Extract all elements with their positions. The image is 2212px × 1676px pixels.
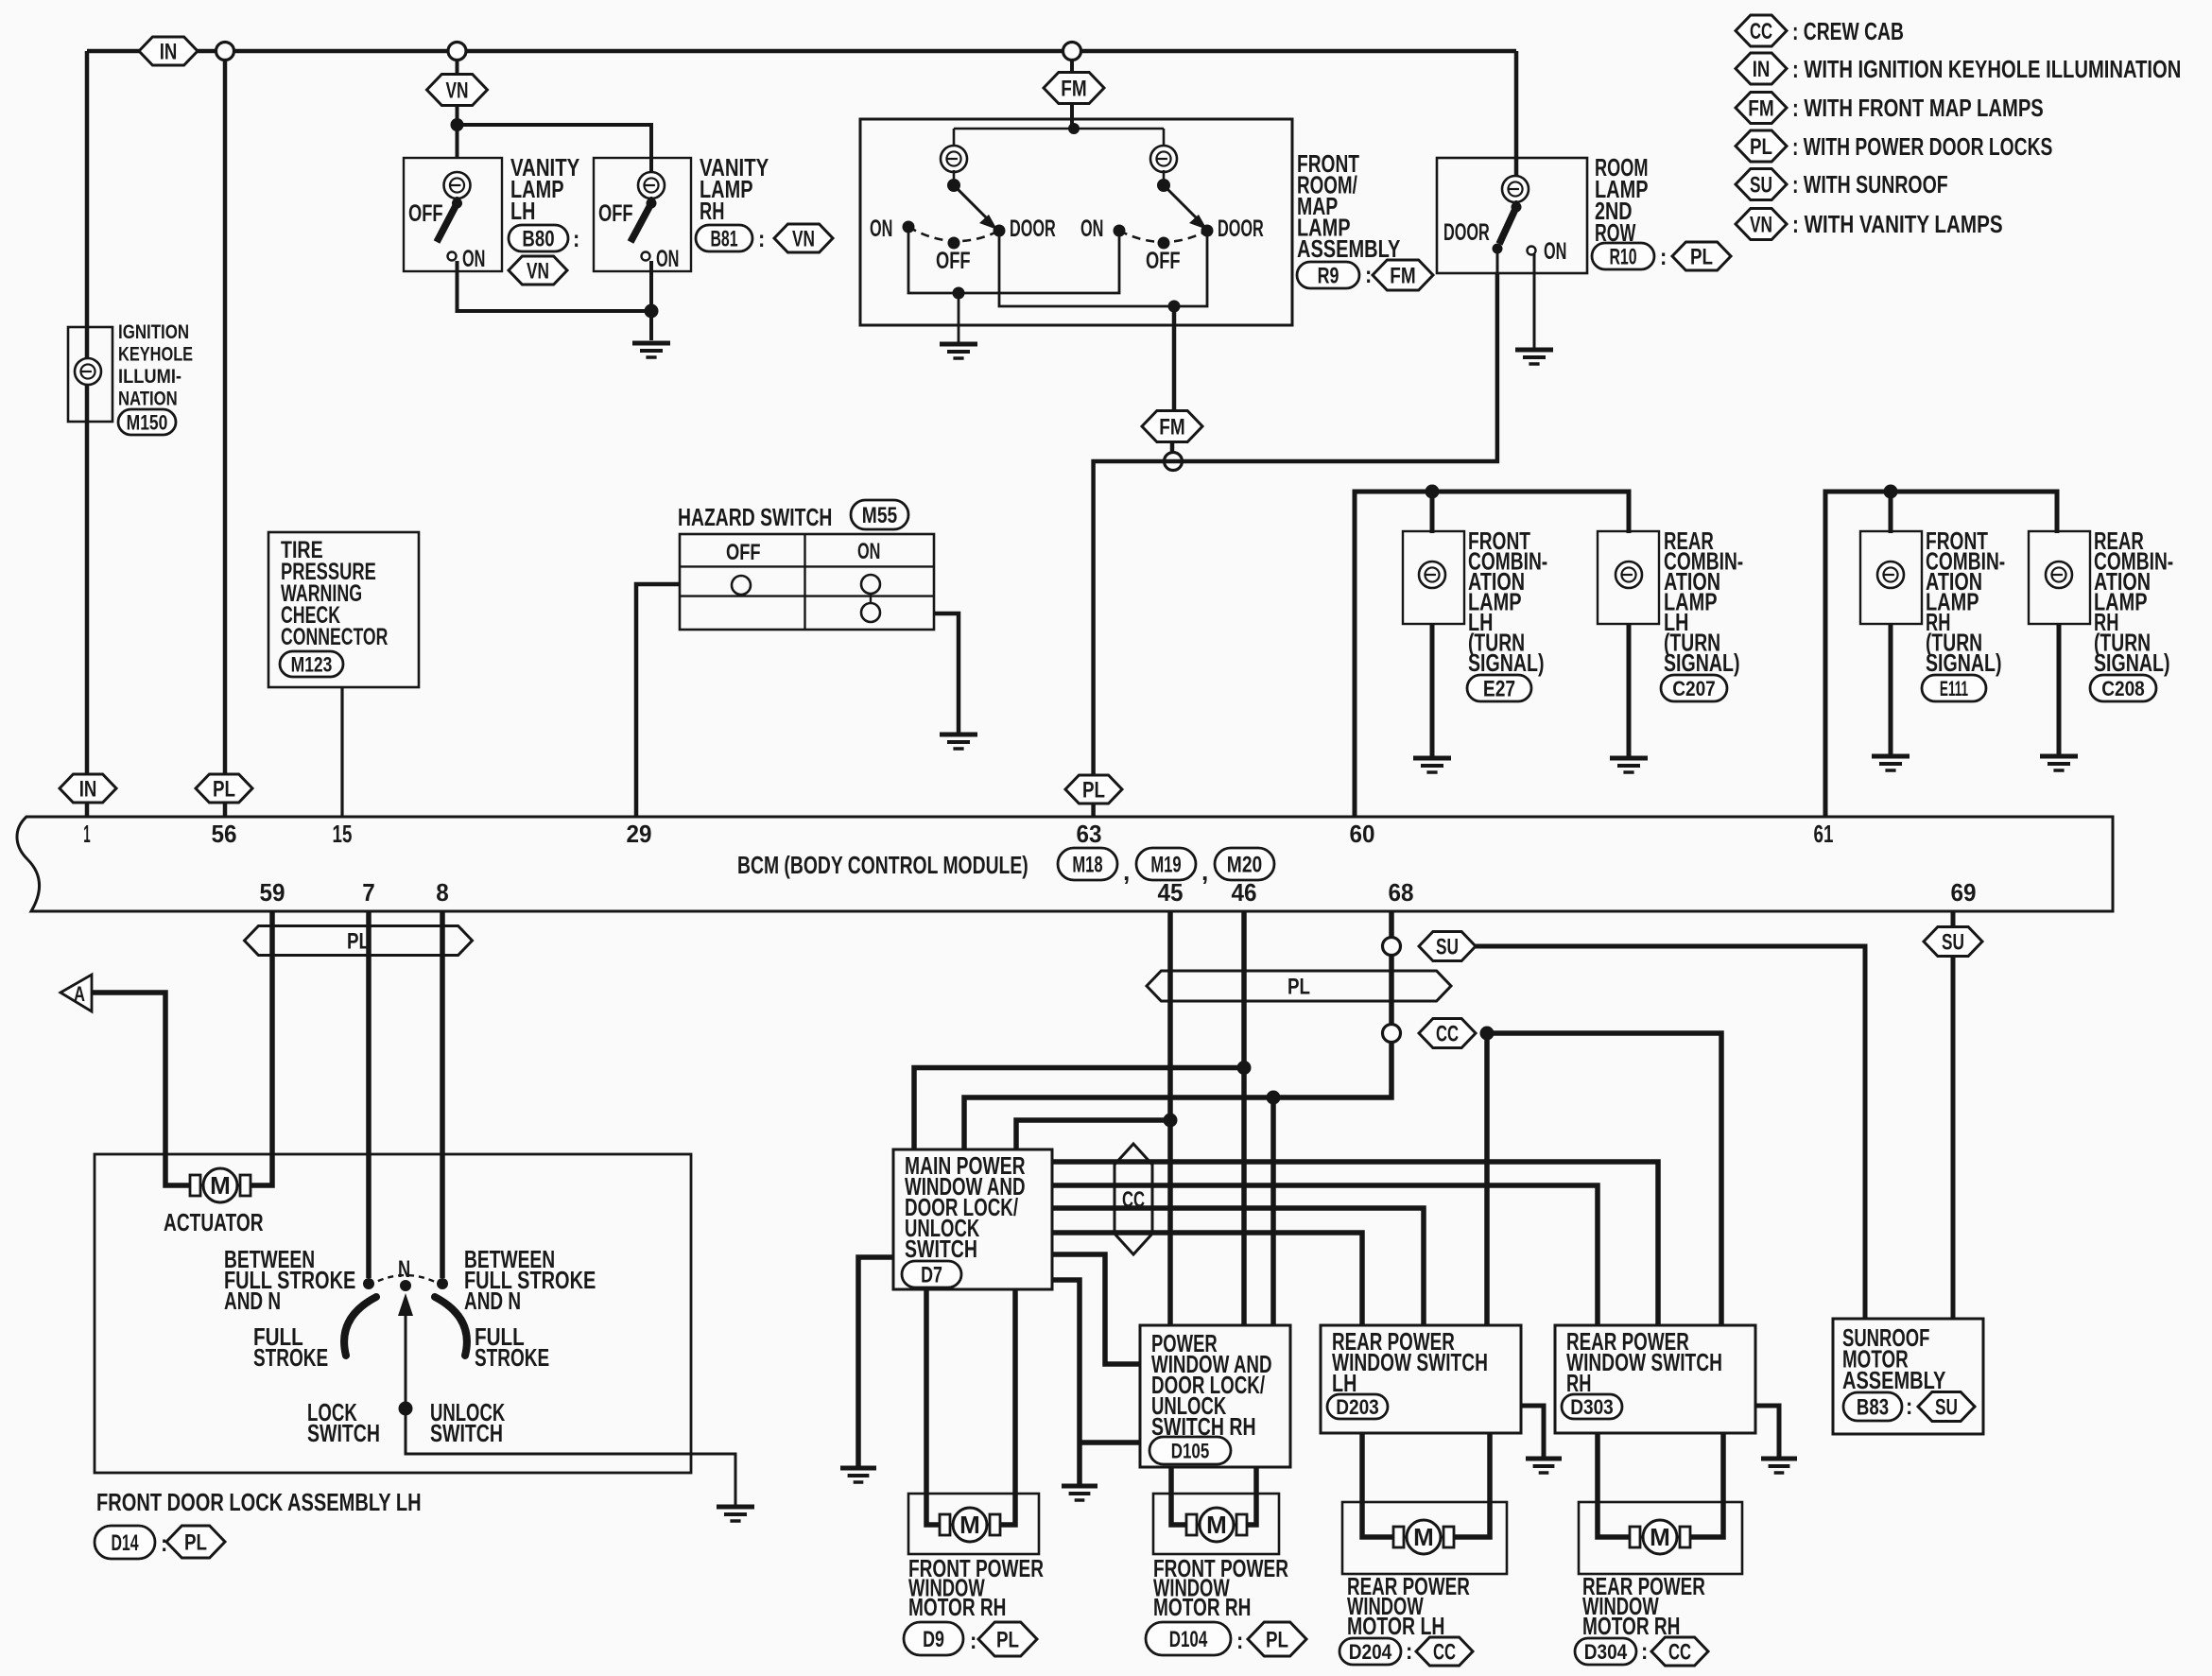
svg-text:D304: D304	[1584, 1640, 1628, 1664]
ground: D7 left	[840, 1466, 876, 1471]
svg-text:M55: M55	[862, 503, 897, 528]
thick arc right (full stroke)	[435, 1297, 467, 1356]
svg-text:AND N: AND N	[224, 1287, 281, 1315]
node: dot on pin68 line feeding D105	[1267, 1091, 1281, 1105]
wire: pin 8 to unlock switch	[440, 911, 445, 1278]
wire: D7 output line 2 to D303	[1052, 1185, 1598, 1325]
wire: hazard to BCM pin 29	[636, 584, 680, 817]
BCM (body control module) bar	[17, 817, 2113, 911]
svg-text:B81: B81	[710, 227, 737, 252]
wire: vanity LH ON to ground bus	[458, 261, 652, 311]
wire: D7 bottom to front motor RH	[926, 1289, 945, 1525]
svg-text:CC: CC	[1433, 1640, 1456, 1666]
svg-text:SWITCH: SWITCH	[307, 1419, 380, 1447]
svg-text:PL: PL	[1287, 975, 1310, 1000]
node: ground tap dot	[953, 287, 965, 300]
front room/map lamp assembly box R9	[860, 119, 1292, 325]
node: lock switch common	[399, 1402, 413, 1416]
hazard switch table	[680, 534, 934, 630]
svg-text:R10: R10	[1609, 245, 1636, 270]
wire: common to ground	[406, 1408, 735, 1505]
svg-text:: WITH VANITY LAMPS: : WITH VANITY LAMPS	[1792, 210, 2003, 238]
svg-text:M: M	[959, 1511, 980, 1539]
wire: main top power bus	[87, 51, 1516, 817]
svg-text:PL: PL	[184, 1530, 207, 1556]
terminal DOOR dot	[1493, 244, 1503, 254]
wire: FM to junction	[1170, 442, 1175, 453]
dashed arc left	[908, 227, 999, 241]
svg-text:M: M	[1413, 1523, 1434, 1551]
labels M18 M19 M20	[1058, 848, 1117, 880]
wire: D203 ground jog	[1521, 1406, 1544, 1457]
svg-text:ON: ON	[462, 246, 485, 272]
svg-text:: WITH SUNROOF: : WITH SUNROOF	[1792, 170, 1948, 199]
svg-text:M19: M19	[1150, 853, 1181, 878]
wire: D303 to rear motor RH	[1598, 1433, 1633, 1537]
svg-text:PL: PL	[1690, 245, 1713, 270]
rear power window switch RH box D303	[1555, 1325, 1755, 1433]
svg-text:ILLUMI-: ILLUMI-	[118, 366, 181, 388]
wire: hazard to ground	[934, 613, 959, 733]
node: lamp output dot	[1168, 301, 1181, 313]
terminals left switch	[903, 221, 915, 233]
svg-text:ASSEMBLY: ASSEMBLY	[1842, 1366, 1945, 1394]
wire: D7 output line 1 to D303	[1052, 1162, 1658, 1325]
svg-text:E27: E27	[1483, 677, 1515, 702]
ground: front comb RH	[1872, 754, 1910, 759]
node: open circle SU tap	[1383, 938, 1401, 956]
svg-text:63: 63	[1077, 820, 1102, 848]
node: dot after CC	[1480, 1027, 1495, 1041]
svg-text:45: 45	[1158, 878, 1184, 907]
front combination lamp RH box E111	[1860, 531, 1922, 624]
label M150	[118, 409, 176, 435]
switch lever LH	[456, 197, 458, 203]
svg-text:,: ,	[1201, 857, 1208, 886]
svg-text:69: 69	[1951, 878, 1977, 907]
ground: rear comb LH	[1610, 756, 1648, 761]
svg-text::: :	[1906, 1394, 1912, 1420]
ground: door lock assembly	[717, 1505, 754, 1510]
bulb left (front room lamp)	[941, 146, 967, 172]
svg-text:IN: IN	[160, 40, 178, 65]
svg-text::: :	[758, 226, 765, 252]
ground: hazard switch	[940, 733, 977, 737]
rear combination lamp LH box C207	[1598, 531, 1659, 624]
wire: output down to FM	[1172, 306, 1177, 412]
svg-text:B80: B80	[522, 227, 554, 252]
svg-text:SIGNAL): SIGNAL)	[1926, 648, 2002, 677]
svg-text:OFF: OFF	[408, 200, 443, 227]
node: dot on pin 45	[1164, 1114, 1178, 1128]
legend: PL	[1736, 130, 1787, 162]
wire: ON-ON link	[908, 227, 1119, 293]
wire: SU line to sunroof motor	[1476, 946, 1865, 1319]
wire: internal top rail	[954, 129, 1164, 147]
svg-text:PL: PL	[996, 1628, 1019, 1653]
room lamp 2nd row box R10	[1437, 158, 1587, 273]
svg-text:C208: C208	[2101, 677, 2145, 700]
label B80 : VN	[509, 225, 568, 251]
svg-text:DOOR: DOOR	[1443, 219, 1490, 246]
label D9 : PL	[904, 1622, 963, 1655]
wire: DOOR down to junction rail	[1496, 251, 1499, 273]
node: dot front RH	[1884, 485, 1898, 499]
label D7	[902, 1261, 961, 1287]
svg-text::: :	[573, 226, 579, 252]
front power window motor RH box D9	[908, 1494, 1039, 1554]
thick arc left (full stroke)	[344, 1297, 376, 1356]
ground: D203	[1526, 1457, 1562, 1461]
wire: to BCM pin 15	[340, 687, 343, 817]
node: open junction below FM	[1165, 453, 1183, 471]
svg-text:STROKE: STROKE	[475, 1343, 549, 1372]
wire: D7 left pin to ground	[858, 1257, 893, 1466]
switch lever room lamp	[1515, 200, 1518, 207]
svg-text:CONNECTOR: CONNECTOR	[281, 624, 388, 650]
svg-text:B83: B83	[1857, 1395, 1889, 1421]
label E27	[1467, 675, 1531, 701]
svg-text:FM: FM	[1390, 264, 1415, 289]
svg-text:SU: SU	[1942, 930, 1964, 956]
svg-text:DOOR: DOOR	[1218, 216, 1264, 242]
svg-text:60: 60	[1350, 820, 1375, 848]
svg-text:IN: IN	[1753, 57, 1771, 82]
label R10 : PL	[1592, 243, 1654, 269]
svg-text:D204: D204	[1349, 1640, 1392, 1664]
front power window motor RH box D104	[1153, 1494, 1279, 1554]
label E111	[1922, 675, 1986, 701]
ground: rear comb RH	[2040, 754, 2078, 759]
svg-text:CC: CC	[1436, 1022, 1459, 1047]
label R9 : FM	[1297, 262, 1359, 288]
svg-text:VN: VN	[527, 259, 549, 285]
tire pressure warning check connector box M123	[268, 532, 419, 687]
label D104 : PL	[1146, 1622, 1231, 1655]
wire: branch down to D105	[1270, 1097, 1276, 1325]
svg-text::: :	[1660, 244, 1667, 270]
node: dot front LH	[1426, 485, 1440, 499]
svg-text:D105: D105	[1171, 1439, 1210, 1462]
svg-text:D203: D203	[1336, 1395, 1379, 1419]
svg-text:ON: ON	[1544, 238, 1566, 265]
svg-text:CC: CC	[1668, 1640, 1691, 1666]
rear power window motor LH box D204	[1342, 1502, 1507, 1574]
svg-text:M18: M18	[1072, 853, 1102, 878]
wire: pin 7 to lock switch	[366, 911, 372, 1278]
label D203	[1327, 1394, 1388, 1419]
svg-text:: CREW CAB: : CREW CAB	[1792, 17, 1904, 45]
svg-text:ON: ON	[870, 216, 892, 242]
svg-text:PL: PL	[1750, 134, 1772, 160]
svg-text:CC: CC	[1122, 1187, 1145, 1213]
label C207	[1661, 675, 1727, 701]
svg-text:FM: FM	[1748, 96, 1773, 122]
node: dot at lamp feed	[1068, 123, 1080, 134]
svg-text:M: M	[1206, 1511, 1227, 1539]
svg-text:D9: D9	[923, 1627, 944, 1652]
svg-text:SU: SU	[1935, 1395, 1958, 1421]
svg-text:VN: VN	[446, 78, 469, 104]
connector SU	[1419, 932, 1476, 961]
svg-text:SU: SU	[1750, 173, 1772, 199]
switch right lever w/ arrow	[1163, 170, 1166, 185]
svg-text:D104: D104	[1169, 1627, 1208, 1652]
motor: door lock actuator	[186, 1184, 254, 1187]
svg-text:59: 59	[260, 878, 285, 907]
svg-text:VN: VN	[792, 227, 815, 252]
ground: room lamp	[1515, 348, 1553, 353]
wire: D105 bottom to front motor RH (D104)	[1171, 1467, 1190, 1525]
wire: D303 ground jog	[1755, 1406, 1779, 1457]
svg-text:FRONT DOOR LOCK ASSEMBLY LH: FRONT DOOR LOCK ASSEMBLY LH	[96, 1488, 422, 1516]
legend: IN	[1736, 53, 1787, 84]
legend: FM	[1736, 93, 1787, 124]
svg-text:PL: PL	[347, 929, 370, 955]
switch lever RH	[650, 197, 653, 203]
svg-text:: WITH FRONT MAP LAMPS: : WITH FRONT MAP LAMPS	[1792, 94, 2044, 122]
label D304 : CC	[1575, 1638, 1636, 1665]
wire: pin 68 down, left to D7	[964, 911, 1391, 1149]
connector A (to sheet A)	[60, 975, 92, 1011]
svg-text:PL: PL	[1266, 1628, 1288, 1653]
svg-text:SIGNAL): SIGNAL)	[1468, 648, 1545, 677]
svg-text:M150: M150	[127, 410, 168, 434]
node: N terminal	[400, 1280, 411, 1291]
connector PL (wide, pins 59/7/8)	[245, 926, 473, 956]
svg-text:29: 29	[627, 820, 652, 848]
svg-text:A: A	[74, 982, 85, 1006]
svg-text:ON: ON	[857, 539, 880, 564]
ground: front room/map lamp	[940, 342, 977, 347]
svg-text:SIGNAL): SIGNAL)	[2094, 648, 2170, 677]
connector CC (tall, crew cab lines)	[1115, 1144, 1152, 1254]
legend: CC crew cab	[1736, 15, 1787, 46]
svg-text:BCM (BODY CONTROL MODULE): BCM (BODY CONTROL MODULE)	[737, 851, 1028, 879]
svg-text:IN: IN	[79, 777, 97, 803]
sunroof motor assembly box B83	[1833, 1319, 1983, 1434]
label D14 : PL	[95, 1526, 155, 1559]
svg-text:LH: LH	[510, 197, 535, 225]
svg-text:FM: FM	[1061, 77, 1086, 102]
svg-text:CC: CC	[1750, 19, 1772, 44]
wire: feed to vanity lamp RH	[458, 125, 652, 180]
svg-text:15: 15	[333, 820, 353, 848]
connector PL above BCM pin 63	[1065, 775, 1122, 803]
svg-text:OFF: OFF	[1146, 248, 1181, 274]
svg-text:RH: RH	[1566, 1369, 1591, 1397]
svg-text:,: ,	[1123, 857, 1130, 886]
wire: pin 45 down to D105	[1167, 911, 1173, 1325]
svg-text:E111: E111	[1940, 677, 1968, 700]
connector IN (inline on bus)	[139, 37, 198, 65]
vanity lamp LH box B80	[404, 158, 502, 271]
svg-text:LH: LH	[1332, 1369, 1357, 1397]
svg-text:KEYHOLE: KEYHOLE	[118, 344, 193, 366]
svg-text:61: 61	[1814, 820, 1834, 848]
svg-text:RH: RH	[700, 197, 724, 225]
svg-text:SU: SU	[1436, 935, 1459, 960]
wire: pin45 branch to D7	[1016, 1120, 1170, 1149]
connector PL (wide, pins 45/46/68)	[1147, 971, 1451, 1001]
svg-text:OFF: OFF	[598, 200, 633, 227]
switch left lever w/ arrow	[953, 170, 956, 185]
svg-text:ON: ON	[1080, 216, 1103, 242]
legend: VN	[1736, 209, 1787, 240]
connector VN (branch from bus)	[456, 60, 459, 159]
node: junction of vanity grounds	[645, 304, 659, 319]
svg-text:PL: PL	[213, 777, 235, 803]
wire: ON to ground	[1533, 254, 1536, 348]
svg-text::: :	[970, 1628, 976, 1654]
svg-text:: WITH POWER DOOR LOCKS: : WITH POWER DOOR LOCKS	[1792, 132, 2052, 161]
svg-text:PL: PL	[1082, 778, 1105, 803]
label D303	[1562, 1394, 1622, 1419]
dashed arc lock switch	[369, 1275, 442, 1286]
svg-text:R9: R9	[1318, 264, 1339, 289]
node: open circle CC tap	[1383, 1025, 1401, 1043]
wire: pin 46 down to D105	[1241, 911, 1247, 1325]
rear combination lamp RH box C208	[2029, 531, 2090, 624]
svg-text:D7: D7	[921, 1263, 942, 1288]
node: open junction on bus at x238	[216, 43, 234, 60]
wire: pin46 branch to D7	[914, 1068, 1244, 1150]
svg-text:D303: D303	[1570, 1395, 1614, 1419]
svg-text:AND N: AND N	[464, 1287, 521, 1315]
label C208	[2090, 675, 2156, 701]
svg-text:OFF: OFF	[936, 248, 971, 274]
wire: A to actuator	[92, 993, 193, 1185]
svg-text:SWITCH: SWITCH	[430, 1419, 503, 1447]
ground: vanity lamps	[632, 341, 670, 346]
wire: pin 59 to actuator	[248, 911, 272, 1185]
svg-text:FM: FM	[1159, 415, 1184, 441]
connector PL above BCM pin 56	[196, 774, 252, 803]
svg-text:M: M	[1650, 1523, 1670, 1551]
wire: to ground	[958, 293, 960, 342]
wire: CC to rear window switch RH	[1487, 1033, 1721, 1325]
label B83 : SU	[1843, 1392, 1902, 1421]
svg-text:NATION: NATION	[118, 389, 178, 410]
svg-text:8: 8	[436, 878, 449, 907]
wire: D7 output line 3 to D203	[1052, 1208, 1424, 1325]
svg-text:STROKE: STROKE	[253, 1343, 328, 1372]
node: dot on pin 46	[1237, 1061, 1252, 1075]
svg-text::: :	[1641, 1639, 1648, 1665]
rear power window motor RH box D304	[1579, 1502, 1742, 1574]
front door lock assembly LH box D14	[95, 1154, 691, 1473]
wire: turn signal left group feed (pin 60)	[1355, 492, 1629, 817]
label D105	[1149, 1437, 1231, 1464]
connector FM (branch from bus)	[1070, 60, 1074, 129]
wire: D7 output line 6 to D105/ground	[1052, 1280, 1140, 1484]
terminal dots pin7/pin8	[363, 1278, 374, 1289]
connector IN above BCM pin 1	[60, 774, 116, 803]
wire: bus corner down to room lamp	[1514, 51, 1519, 180]
connector SU above pin 69 wire	[1951, 911, 1956, 1319]
front combination lamp LH box E27	[1403, 531, 1464, 624]
node: open junction on bus at FM branch	[1063, 43, 1081, 60]
svg-text:VN: VN	[1750, 213, 1772, 238]
svg-text:46: 46	[1232, 878, 1257, 907]
pin stubs bottom	[272, 911, 1953, 924]
node: open junction on bus at VN branch	[448, 43, 466, 60]
wire: D7 output line 5 to D105 left	[1052, 1254, 1140, 1364]
lamp: ignition keyhole illumination box M150	[68, 327, 112, 422]
svg-text:SWITCH: SWITCH	[905, 1235, 977, 1263]
ground: front comb LH	[1413, 756, 1451, 761]
ground: D303	[1761, 1457, 1797, 1461]
svg-text:1: 1	[83, 820, 90, 848]
svg-text:: WITH IGNITION KEYHOLE ILLUMI: : WITH IGNITION KEYHOLE ILLUMINATION	[1792, 55, 2181, 83]
svg-text:M123: M123	[291, 652, 333, 676]
svg-text:MOTOR RH: MOTOR RH	[908, 1593, 1006, 1621]
svg-text:OFF: OFF	[726, 540, 761, 565]
svg-text:SIGNAL): SIGNAL)	[1664, 648, 1740, 677]
svg-text:MOTOR RH: MOTOR RH	[1153, 1593, 1251, 1621]
ground: line 6	[1062, 1484, 1097, 1489]
svg-text:ON: ON	[656, 246, 679, 272]
svg-text:ACTUATOR: ACTUATOR	[164, 1208, 264, 1236]
wire: DOOR-DOOR link	[999, 231, 1207, 306]
label D204 : CC	[1339, 1638, 1401, 1665]
svg-text::: :	[1236, 1628, 1243, 1654]
svg-text:M: M	[210, 1171, 231, 1200]
connector CC	[1419, 1019, 1476, 1048]
wire: D7 output line 4 to D203	[1052, 1233, 1362, 1325]
rear power window switch LH box D203	[1321, 1325, 1521, 1433]
svg-text:56: 56	[212, 820, 237, 848]
needle arrow	[405, 1309, 407, 1408]
bulb right (map lamp)	[1150, 146, 1177, 172]
label B81 : VN	[696, 225, 752, 251]
svg-text:D14: D14	[111, 1530, 139, 1556]
svg-text:IGNITION: IGNITION	[118, 321, 189, 343]
svg-text:C207: C207	[1672, 677, 1716, 700]
wire: D203 to rear motor LH	[1362, 1433, 1397, 1537]
svg-text:N: N	[398, 1256, 410, 1283]
wire: CC branch down to rear switch LH	[1484, 1033, 1490, 1325]
wire: junction rail to room lamp / pin 63	[1094, 273, 1497, 817]
legend: SU	[1736, 169, 1787, 200]
node: junction dot below VN	[451, 118, 464, 131]
power window and door lock/unlock switch RH box D105	[1140, 1325, 1290, 1467]
svg-text:68: 68	[1389, 878, 1414, 907]
main power window and door lock/unlock switch box D7	[893, 1149, 1052, 1289]
vanity lamp RH box B81	[594, 158, 691, 271]
wire: turn signal right group feed (pin 61)	[1825, 492, 2057, 817]
svg-text:ASSEMBLY: ASSEMBLY	[1297, 234, 1400, 263]
wire: vanity RH ON down	[649, 261, 653, 340]
svg-text::: :	[1406, 1639, 1412, 1665]
svg-text:M20: M20	[1227, 853, 1262, 878]
svg-text:HAZARD SWITCH: HAZARD SWITCH	[678, 503, 832, 531]
connector FM below lamp assembly	[1142, 411, 1202, 442]
svg-text:7: 7	[362, 878, 375, 907]
svg-text:DOOR: DOOR	[1010, 216, 1056, 242]
terminal ON circle LH	[448, 252, 457, 261]
